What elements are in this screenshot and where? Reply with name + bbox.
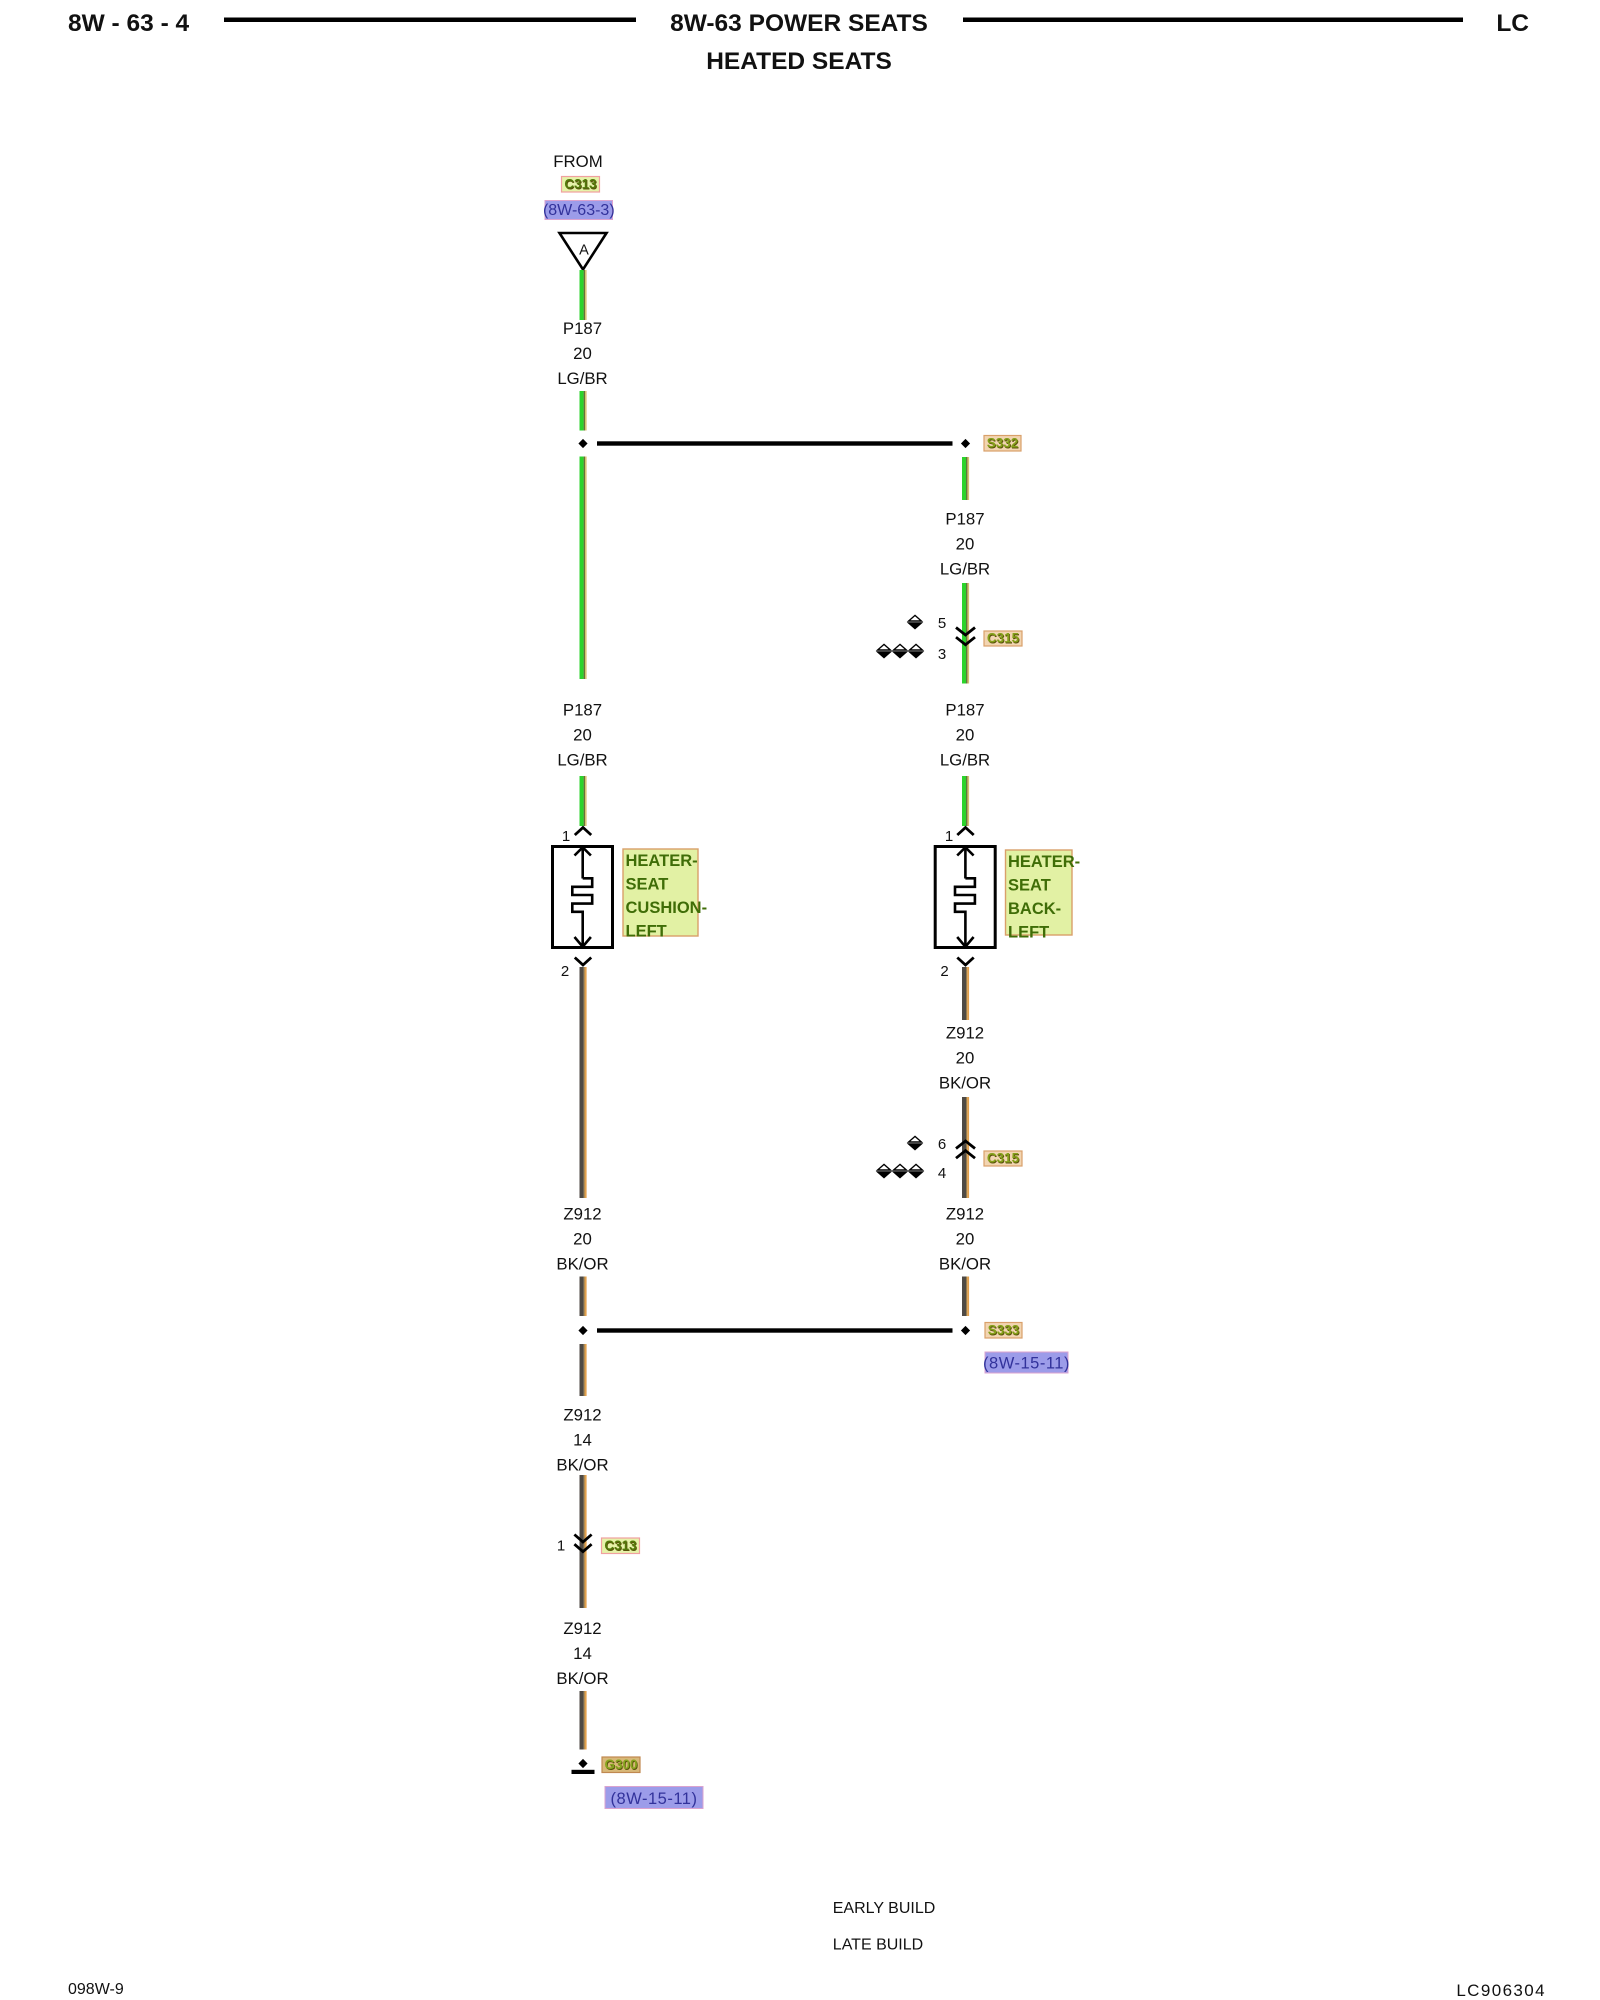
svg-text:3: 3 xyxy=(938,646,946,663)
svg-text:20: 20 xyxy=(956,726,975,745)
svg-text:P187: P187 xyxy=(563,701,602,720)
svg-text:C315: C315 xyxy=(987,631,1020,646)
svg-text:2: 2 xyxy=(561,963,569,980)
svg-text:2: 2 xyxy=(940,963,948,980)
build marker diamonds (late) at C315 pin 3 xyxy=(878,644,923,657)
wire label Z912 14 BK/OR (left, above G300) xyxy=(556,1619,608,1688)
svg-text:20: 20 xyxy=(573,726,592,745)
svg-text:P187: P187 xyxy=(945,701,984,720)
svg-text:8W - 63 - 4: 8W - 63 - 4 xyxy=(68,10,190,37)
svg-text:20: 20 xyxy=(573,344,592,363)
wire Z912 from heater cushion pin 2 xyxy=(580,967,587,1198)
svg-text:SEAT: SEAT xyxy=(626,875,669,893)
svg-text:(8W-15-11): (8W-15-11) xyxy=(611,1790,698,1808)
wire P187 below splice S332 xyxy=(962,457,969,500)
wire label P187 20 LG/BR (left, upper) xyxy=(557,319,607,388)
svg-text:1: 1 xyxy=(562,828,570,845)
svg-text:14: 14 xyxy=(573,1644,592,1663)
wire Z912 through C313 pin 1 xyxy=(580,1475,587,1608)
wire Z912 through C315 pins 6/4 xyxy=(962,1097,969,1198)
in-line connector C313 halves (chevrons) xyxy=(574,1535,591,1552)
wire P187 segment below triangle xyxy=(580,270,587,320)
heater element HEATER-SEAT BACK-LEFT xyxy=(935,847,995,948)
build marker diamonds (late) at C315 pin 4 xyxy=(878,1164,923,1177)
svg-text:098W-9: 098W-9 xyxy=(68,1981,124,1998)
svg-text:BK/OR: BK/OR xyxy=(939,1255,991,1274)
splice label S332 xyxy=(984,436,1021,452)
wire label P187 20 LG/BR (left, above heater) xyxy=(557,701,607,770)
connector label C315 (upper) xyxy=(984,631,1022,647)
svg-text:SEAT: SEAT xyxy=(1008,876,1051,894)
svg-text:P187: P187 xyxy=(563,319,602,338)
svg-text:HEATER-: HEATER- xyxy=(626,852,698,870)
svg-text:EARLY BUILD: EARLY BUILD xyxy=(833,1900,936,1917)
build marker diamond (early) at C315 pin 5 xyxy=(909,615,922,628)
wire label P187 20 LG/BR (right, above heater) xyxy=(940,701,990,770)
svg-text:1: 1 xyxy=(557,1538,565,1555)
connector chevron pin 2 (heater cushion) xyxy=(575,958,591,966)
reference label (8W-63-3) xyxy=(543,201,615,220)
svg-text:LEFT: LEFT xyxy=(1008,924,1049,942)
svg-text:HEATER-: HEATER- xyxy=(1008,853,1080,871)
svg-text:LG/BR: LG/BR xyxy=(940,751,990,770)
svg-text:LATE BUILD: LATE BUILD xyxy=(833,1937,923,1954)
svg-text:LG/BR: LG/BR xyxy=(557,369,607,388)
off-page connector triangle A xyxy=(560,233,607,270)
svg-text:P187: P187 xyxy=(945,510,984,529)
svg-text:LG/BR: LG/BR xyxy=(557,751,607,770)
svg-text:Z912: Z912 xyxy=(563,1619,601,1638)
splice label S333 xyxy=(985,1323,1022,1339)
svg-text:CUSHION-: CUSHION- xyxy=(626,899,708,917)
svg-text:5: 5 xyxy=(938,615,946,632)
svg-text:BK/OR: BK/OR xyxy=(939,1074,991,1093)
splice bus line S333 xyxy=(597,1328,953,1332)
header rule right xyxy=(963,18,1463,23)
wire label Z912 20 BK/OR (left) xyxy=(556,1205,608,1274)
svg-text:HEATED SEATS: HEATED SEATS xyxy=(706,48,892,75)
splice junction dot S332 left xyxy=(578,439,587,448)
svg-text:6: 6 xyxy=(938,1136,946,1153)
connector label C315 (lower) xyxy=(984,1151,1022,1167)
svg-text:20: 20 xyxy=(956,1049,975,1068)
svg-text:8W-63 POWER SEATS: 8W-63 POWER SEATS xyxy=(670,10,928,37)
wire label P187 20 LG/BR (right, upper) xyxy=(940,510,990,579)
svg-text:LG/BR: LG/BR xyxy=(940,560,990,579)
svg-text:BK/OR: BK/OR xyxy=(556,1669,608,1688)
svg-text:Z912: Z912 xyxy=(563,1406,601,1425)
wire P187 through C315 pins 5/3 xyxy=(962,583,969,684)
connector label C313 (lower) xyxy=(602,1538,640,1554)
wire P187 into heater back pin 1 xyxy=(962,776,969,826)
in-line connector C315 upper halves (chevrons) xyxy=(956,628,975,645)
svg-text:C313: C313 xyxy=(604,1538,637,1553)
wire Z912 from heater back pin 2 xyxy=(962,967,969,1020)
svg-text:C315: C315 xyxy=(987,1151,1020,1166)
svg-text:14: 14 xyxy=(573,1431,592,1450)
reference label (8W-15-11) at S333 xyxy=(983,1352,1070,1373)
ground label G300 xyxy=(602,1757,640,1773)
in-line connector C315 lower halves (chevrons) xyxy=(956,1141,975,1158)
svg-text:LEFT: LEFT xyxy=(626,923,667,941)
splice junction dot S332 right xyxy=(961,439,970,448)
svg-text:A: A xyxy=(579,243,589,259)
svg-text:Z912: Z912 xyxy=(946,1024,984,1043)
component label HEATER-SEAT CUSHION-LEFT xyxy=(623,849,707,941)
wire Z912 into splice S333 xyxy=(580,1277,587,1317)
svg-text:(8W-63-3): (8W-63-3) xyxy=(543,202,615,219)
wire P187 long left segment xyxy=(580,457,587,680)
svg-text:1: 1 xyxy=(945,828,953,845)
svg-text:BK/OR: BK/OR xyxy=(556,1255,608,1274)
connector chevron pin 1 (heater cushion) xyxy=(575,828,591,836)
svg-text:C313: C313 xyxy=(564,177,597,192)
svg-text:G300: G300 xyxy=(604,1757,637,1772)
wire P187 into heater cushion pin 1 xyxy=(580,776,587,826)
wire Z912 into splice S333 right xyxy=(962,1277,969,1317)
wire label Z912 20 BK/OR (right, upper) xyxy=(939,1024,991,1093)
splice junction dot S333 left xyxy=(578,1326,587,1335)
connector chevron pin 2 (heater back) xyxy=(957,958,973,966)
wire label Z912 14 BK/OR (left, above C313) xyxy=(556,1406,608,1475)
svg-text:S332: S332 xyxy=(987,436,1019,451)
svg-text:FROM: FROM xyxy=(553,152,602,171)
svg-text:LC: LC xyxy=(1496,10,1529,37)
splice junction dot G300 ground xyxy=(578,1759,587,1768)
header rule left xyxy=(224,18,636,23)
ground symbol bar G300 xyxy=(572,1770,595,1774)
wire Z912 into ground G300 xyxy=(580,1691,587,1750)
svg-text:S333: S333 xyxy=(988,1323,1020,1338)
splice junction dot S333 right xyxy=(961,1326,970,1335)
splice bus line S332 xyxy=(597,441,953,445)
svg-text:20: 20 xyxy=(573,1230,592,1249)
svg-text:(8W-15-11): (8W-15-11) xyxy=(983,1355,1070,1373)
svg-text:Z912: Z912 xyxy=(563,1205,601,1224)
heater element HEATER-SEAT CUSHION-LEFT xyxy=(553,847,613,948)
wire label Z912 20 BK/OR (right, lower) xyxy=(939,1205,991,1274)
svg-text:LC906304: LC906304 xyxy=(1456,1981,1546,2000)
component label HEATER-SEAT BACK-LEFT xyxy=(1006,850,1081,942)
reference label (8W-15-11) at G300 xyxy=(605,1787,703,1809)
connector chevron pin 1 (heater back) xyxy=(957,828,973,836)
svg-text:BACK-: BACK- xyxy=(1008,900,1061,918)
wire P187 into splice S332 xyxy=(580,391,587,431)
svg-text:4: 4 xyxy=(938,1165,946,1182)
build marker diamond (early) at C315 pin 6 xyxy=(909,1136,922,1149)
wire Z912 14 below splice S333 xyxy=(580,1344,587,1396)
svg-text:20: 20 xyxy=(956,535,975,554)
svg-text:20: 20 xyxy=(956,1230,975,1249)
svg-text:BK/OR: BK/OR xyxy=(556,1456,608,1475)
svg-text:Z912: Z912 xyxy=(946,1205,984,1224)
connector label C313 (source) xyxy=(562,177,600,193)
